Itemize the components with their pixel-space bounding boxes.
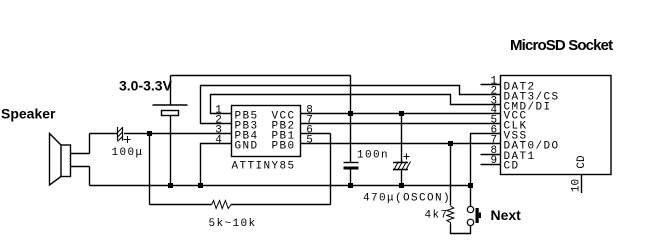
svg-text:5: 5 (306, 135, 313, 147)
svg-text:GND: GND (235, 141, 259, 153)
svg-text:5k~10k: 5k~10k (209, 218, 257, 230)
svg-text:9: 9 (490, 155, 497, 167)
svg-text:470μ(OSCON): 470μ(OSCON) (363, 193, 451, 205)
svg-text:CD: CD (504, 161, 520, 173)
svg-text:100n: 100n (357, 150, 389, 162)
svg-text:PB0: PB0 (272, 141, 296, 153)
svg-text:3.0-3.3V: 3.0-3.3V (119, 78, 173, 94)
svg-text:Speaker: Speaker (1, 106, 56, 122)
svg-text:4k7: 4k7 (425, 210, 449, 222)
svg-text:Next: Next (491, 207, 522, 223)
svg-text:ATTINY85: ATTINY85 (232, 161, 296, 173)
svg-text:10: 10 (571, 179, 583, 192)
svg-text:4: 4 (215, 135, 222, 147)
svg-text:100μ: 100μ (112, 147, 144, 159)
svg-text:MicroSD Socket: MicroSD Socket (510, 37, 613, 54)
svg-text:CD: CD (576, 155, 588, 169)
